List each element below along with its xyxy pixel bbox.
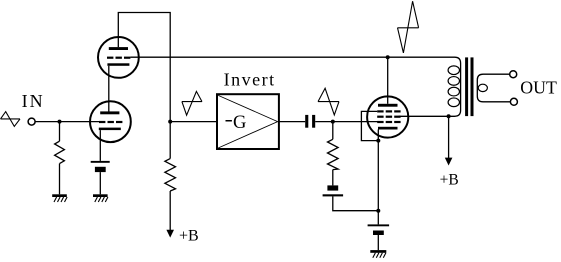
invert amplifier block U1 [217, 94, 279, 149]
sine annotation input signal [1, 112, 21, 127]
transformer T1 core [467, 57, 472, 116]
wire +B arrow right stem [448, 116, 450, 158]
svg-text:+B: +B [179, 227, 199, 244]
sine annotation after invert [318, 88, 339, 115]
svg-text:+B: +B [440, 171, 459, 188]
triode V1 (input, lower) [90, 101, 131, 142]
svg-text:IN: IN [22, 91, 45, 111]
triode V2 (upper) [98, 37, 139, 78]
ground G2 [93, 194, 108, 202]
wire V2 plate loop to node A [118, 13, 170, 122]
label -G [226, 120, 232, 122]
node plate junction [386, 55, 390, 59]
wire cap to V3 grid [315, 121, 377, 123]
node OUT terminal upper [510, 71, 517, 78]
battery B1 (cathode bias) [91, 161, 110, 172]
svg-text:OUT: OUT [520, 78, 557, 98]
node screen/+B junction [447, 114, 451, 118]
wire node A hang to R2 [169, 122, 171, 159]
wire feedback line V2 grid to transformer [130, 57, 460, 116]
wire V3 plate lead [387, 57, 389, 104]
resistor R1 [55, 141, 65, 163]
ground G1 [52, 194, 67, 202]
+B arrow right [445, 158, 453, 166]
sine annotation output (large) [398, 1, 419, 53]
wire B1 to ground [99, 172, 101, 194]
capacitor C1 (coupling) [305, 115, 315, 128]
sine annotation after first stage [182, 91, 202, 115]
node A junction [168, 120, 172, 124]
resistor R2 (plate load to +B) [165, 159, 176, 191]
svg-text:G: G [233, 113, 246, 133]
wire node A to invert box [170, 121, 217, 123]
transformer T1 primary coil [448, 66, 459, 107]
wire V1 plate to V2 cathode [108, 66, 110, 112]
wire V1 cathode to battery [99, 130, 101, 161]
ground G4 [370, 250, 386, 258]
wire grid-leak hang [59, 122, 61, 142]
wire R3 to battery B2 [332, 170, 334, 186]
battery B3 (cathode bias) [368, 224, 390, 235]
svg-text:Invert: Invert [224, 70, 276, 90]
node suppressor-cathode junction [376, 139, 380, 143]
wire grid junction hang to R3 [332, 122, 334, 140]
pentode V3 (output) [367, 96, 408, 137]
node OUT terminal lower [510, 98, 517, 105]
wire V3 suppressor bracket to cathode [361, 111, 378, 140]
wire B2 to cathode node [333, 196, 379, 210]
transformer T1 secondary [477, 74, 510, 102]
battery B2 (grid bias) [323, 185, 344, 196]
resistor R3 (grid leak) [328, 139, 339, 169]
node grid junction [331, 120, 335, 124]
wire R1 to ground [59, 164, 61, 195]
node cathode junction [376, 209, 380, 213]
wire input to V1 grid [35, 121, 99, 123]
+B arrow left [166, 230, 174, 238]
node input junction [58, 120, 62, 124]
wire V3 cathode down [377, 130, 379, 225]
wire box to coupling cap [279, 121, 305, 123]
wire B3 to ground [377, 235, 379, 250]
node IN terminal [28, 118, 35, 125]
wire R2 to +B arrow [169, 191, 171, 230]
